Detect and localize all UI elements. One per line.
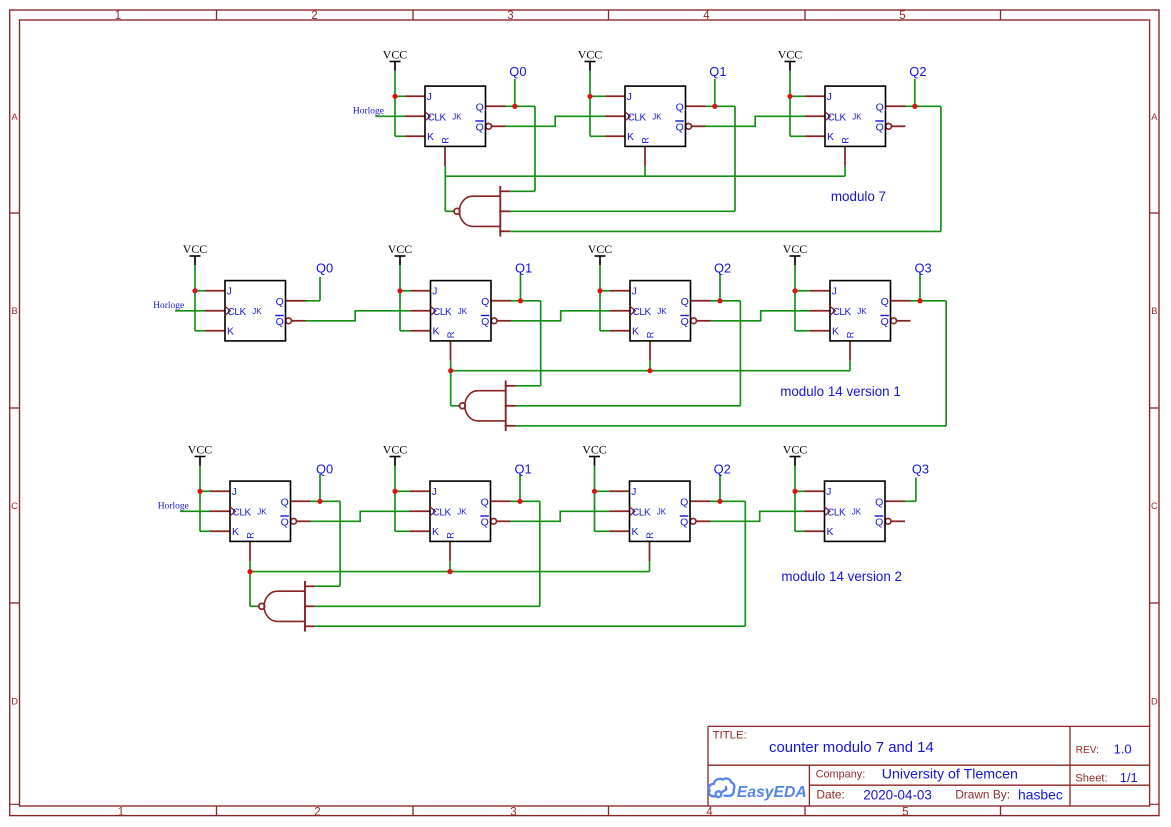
svg-text:CLK: CLK xyxy=(433,307,452,318)
svg-text:K: K xyxy=(832,326,839,338)
svg-text:Q: Q xyxy=(276,316,284,328)
svg-text:CLK: CLK xyxy=(228,307,247,318)
svg-text:Q0: Q0 xyxy=(509,64,526,79)
svg-text:B: B xyxy=(11,306,17,316)
svg-text:JK: JK xyxy=(857,307,867,316)
svg-text:D: D xyxy=(1151,696,1158,706)
svg-text:Q: Q xyxy=(680,516,688,528)
svg-text:CLK: CLK xyxy=(828,112,847,123)
svg-text:CLK: CLK xyxy=(827,507,846,518)
svg-text:modulo 14 version 2: modulo 14 version 2 xyxy=(781,569,902,584)
svg-text:EasyEDA: EasyEDA xyxy=(737,784,807,801)
svg-text:VCC: VCC xyxy=(783,443,808,457)
svg-text:Q0: Q0 xyxy=(316,260,333,275)
svg-text:VCC: VCC xyxy=(188,443,213,457)
svg-text:modulo 7: modulo 7 xyxy=(831,189,886,204)
svg-text:2: 2 xyxy=(311,10,317,22)
svg-text:CLK: CLK xyxy=(633,307,652,318)
svg-text:R: R xyxy=(645,532,655,539)
svg-text:2: 2 xyxy=(314,806,320,818)
svg-text:1: 1 xyxy=(118,806,124,818)
svg-text:Q: Q xyxy=(476,101,484,113)
svg-text:JK: JK xyxy=(852,507,862,516)
svg-text:Q: Q xyxy=(681,316,689,328)
svg-text:3: 3 xyxy=(507,10,513,22)
svg-text:K: K xyxy=(427,131,434,143)
svg-text:Q: Q xyxy=(481,496,489,508)
svg-text:VCC: VCC xyxy=(778,48,803,62)
svg-text:JK: JK xyxy=(457,507,467,516)
svg-text:J: J xyxy=(432,486,437,498)
svg-text:modulo 14 version 1: modulo 14 version 1 xyxy=(780,384,901,399)
svg-text:Q: Q xyxy=(281,496,289,508)
svg-text:VCC: VCC xyxy=(783,242,808,256)
svg-text:Q: Q xyxy=(876,101,884,113)
svg-text:A: A xyxy=(1151,112,1158,122)
svg-text:Q: Q xyxy=(481,316,489,328)
svg-text:J: J xyxy=(832,286,837,298)
svg-text:Q: Q xyxy=(481,516,489,528)
svg-text:Q: Q xyxy=(876,121,884,133)
svg-text:Q1: Q1 xyxy=(515,260,532,275)
svg-text:Q2: Q2 xyxy=(714,260,731,275)
svg-text:K: K xyxy=(632,526,639,538)
svg-text:Date:: Date: xyxy=(816,788,844,802)
svg-text:JK: JK xyxy=(452,112,462,121)
svg-text:CLK: CLK xyxy=(632,507,651,518)
svg-text:Q: Q xyxy=(875,516,883,528)
svg-text:J: J xyxy=(826,486,831,498)
svg-text:1.0: 1.0 xyxy=(1114,741,1132,756)
svg-text:JK: JK xyxy=(252,307,262,316)
svg-text:R: R xyxy=(640,137,650,144)
svg-text:CLK: CLK xyxy=(833,307,852,318)
svg-text:A: A xyxy=(11,112,18,122)
svg-text:4: 4 xyxy=(703,10,710,22)
svg-text:K: K xyxy=(232,526,239,538)
svg-text:Q: Q xyxy=(676,121,684,133)
svg-text:1: 1 xyxy=(115,10,121,22)
svg-text:J: J xyxy=(227,286,232,298)
svg-text:J: J xyxy=(427,91,432,103)
svg-text:CLK: CLK xyxy=(428,112,447,123)
svg-text:Q: Q xyxy=(676,101,684,113)
svg-text:VCC: VCC xyxy=(183,242,208,256)
svg-text:Q: Q xyxy=(276,296,284,308)
svg-text:Q3: Q3 xyxy=(912,461,929,476)
svg-text:D: D xyxy=(11,696,18,706)
svg-text:JK: JK xyxy=(852,112,862,121)
svg-text:C: C xyxy=(1151,501,1158,511)
svg-text:CLK: CLK xyxy=(433,507,452,518)
svg-text:VCC: VCC xyxy=(383,443,408,457)
svg-text:J: J xyxy=(631,486,636,498)
svg-text:TITLE:: TITLE: xyxy=(713,729,747,741)
svg-text:Q: Q xyxy=(481,296,489,308)
svg-text:R: R xyxy=(845,331,855,338)
svg-text:K: K xyxy=(827,526,834,538)
svg-text:Q: Q xyxy=(875,496,883,508)
svg-text:Q: Q xyxy=(881,316,889,328)
svg-text:hasbec: hasbec xyxy=(1018,787,1063,803)
svg-text:R: R xyxy=(446,331,456,338)
svg-text:K: K xyxy=(433,326,440,338)
svg-text:1/1: 1/1 xyxy=(1120,770,1138,785)
svg-text:Horloge: Horloge xyxy=(153,301,184,311)
svg-text:Drawn By:: Drawn By: xyxy=(955,788,1010,802)
svg-text:K: K xyxy=(827,131,834,143)
svg-text:Q1: Q1 xyxy=(515,461,532,476)
svg-text:VCC: VCC xyxy=(588,242,613,256)
svg-text:VCC: VCC xyxy=(383,48,408,62)
svg-text:C: C xyxy=(11,501,18,511)
svg-text:Company:: Company: xyxy=(816,769,866,781)
svg-text:R: R xyxy=(645,331,655,338)
svg-text:Q2: Q2 xyxy=(909,64,926,79)
svg-text:Sheet:: Sheet: xyxy=(1075,772,1107,784)
svg-text:Q: Q xyxy=(681,296,689,308)
svg-text:K: K xyxy=(632,326,639,338)
svg-text:REV:: REV: xyxy=(1076,745,1099,756)
svg-text:Q3: Q3 xyxy=(915,260,932,275)
svg-text:5: 5 xyxy=(902,806,908,818)
svg-text:JK: JK xyxy=(458,307,468,316)
svg-text:K: K xyxy=(627,131,634,143)
svg-text:B: B xyxy=(1151,306,1157,316)
svg-text:Q2: Q2 xyxy=(714,461,731,476)
svg-text:Q: Q xyxy=(881,296,889,308)
svg-text:CLK: CLK xyxy=(233,507,252,518)
svg-text:R: R xyxy=(440,137,450,144)
svg-text:Q: Q xyxy=(476,121,484,133)
svg-text:R: R xyxy=(840,137,850,144)
svg-text:J: J xyxy=(432,286,437,298)
svg-text:Horloge: Horloge xyxy=(353,107,384,117)
svg-text:Q: Q xyxy=(680,496,688,508)
svg-text:2020-04-03: 2020-04-03 xyxy=(863,787,932,802)
svg-text:R: R xyxy=(445,532,455,539)
svg-text:counter modulo 7 and 14: counter modulo 7 and 14 xyxy=(769,740,934,756)
svg-text:R: R xyxy=(245,532,255,539)
svg-text:VCC: VCC xyxy=(388,242,413,256)
svg-text:VCC: VCC xyxy=(578,48,603,62)
svg-text:4: 4 xyxy=(706,806,713,818)
svg-text:VCC: VCC xyxy=(582,443,607,457)
svg-text:J: J xyxy=(632,286,637,298)
svg-text:CLK: CLK xyxy=(628,112,647,123)
svg-text:J: J xyxy=(827,91,832,103)
svg-text:Q: Q xyxy=(281,516,289,528)
svg-text:University of Tlemcen: University of Tlemcen xyxy=(882,766,1018,782)
svg-text:J: J xyxy=(232,486,237,498)
svg-text:5: 5 xyxy=(899,10,905,22)
svg-text:JK: JK xyxy=(652,112,662,121)
svg-text:JK: JK xyxy=(257,507,267,516)
svg-text:JK: JK xyxy=(657,307,667,316)
svg-text:Q1: Q1 xyxy=(709,64,726,79)
svg-text:3: 3 xyxy=(510,806,516,818)
svg-text:JK: JK xyxy=(657,507,667,516)
svg-text:J: J xyxy=(627,91,632,103)
svg-text:Horloge: Horloge xyxy=(158,502,189,512)
svg-text:K: K xyxy=(227,326,234,338)
svg-text:K: K xyxy=(432,526,439,538)
svg-text:Q0: Q0 xyxy=(316,461,333,476)
